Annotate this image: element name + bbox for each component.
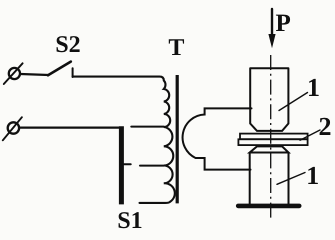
- terminal X2 (bottom left): [3, 117, 22, 140]
- upper electrode 1 body: [250, 68, 288, 131]
- leader line to workpiece label 2: [300, 130, 320, 140]
- force arrow P: [268, 9, 275, 48]
- leader line to upper electrode label 1: [279, 93, 308, 111]
- terminal X1 (top left): [4, 63, 23, 84]
- selector switch S1 bar: [119, 126, 124, 204]
- wire from S2 to transformer primary + primary winding W1: [73, 77, 175, 203]
- base support: [238, 204, 299, 209]
- S1 wiper contact tick: [124, 163, 131, 165]
- label 1 (upper electrode): [309, 79, 319, 96]
- label T: [169, 39, 184, 55]
- wire from X1 to switch S2: [21, 74, 49, 75]
- press centreline (dash-dot): [270, 55, 272, 221]
- switch S2 blade: [48, 62, 71, 76]
- primary tap 1 wire: [131, 126, 164, 128]
- primary tap 2 wire: [140, 165, 164, 167]
- label P: [276, 15, 290, 31]
- label S2: [57, 36, 68, 52]
- label 1 (lower electrode): [308, 167, 318, 184]
- secondary winding W2 single turn loop with wires to electrodes: [183, 108, 252, 169]
- label 2 (workpieces): [320, 118, 331, 135]
- transformer core: [176, 75, 179, 203]
- leader line to lower electrode label 1: [277, 173, 305, 185]
- switch S2 fixed contact: [72, 68, 74, 77]
- lower electrode 1 body: [250, 146, 289, 204]
- label S1: [119, 212, 130, 228]
- workpiece sheet 2 (lower): [238, 139, 307, 145]
- workpiece sheet 2 (upper): [240, 134, 308, 140]
- wire from X2 to selector S1: [20, 126, 121, 128]
